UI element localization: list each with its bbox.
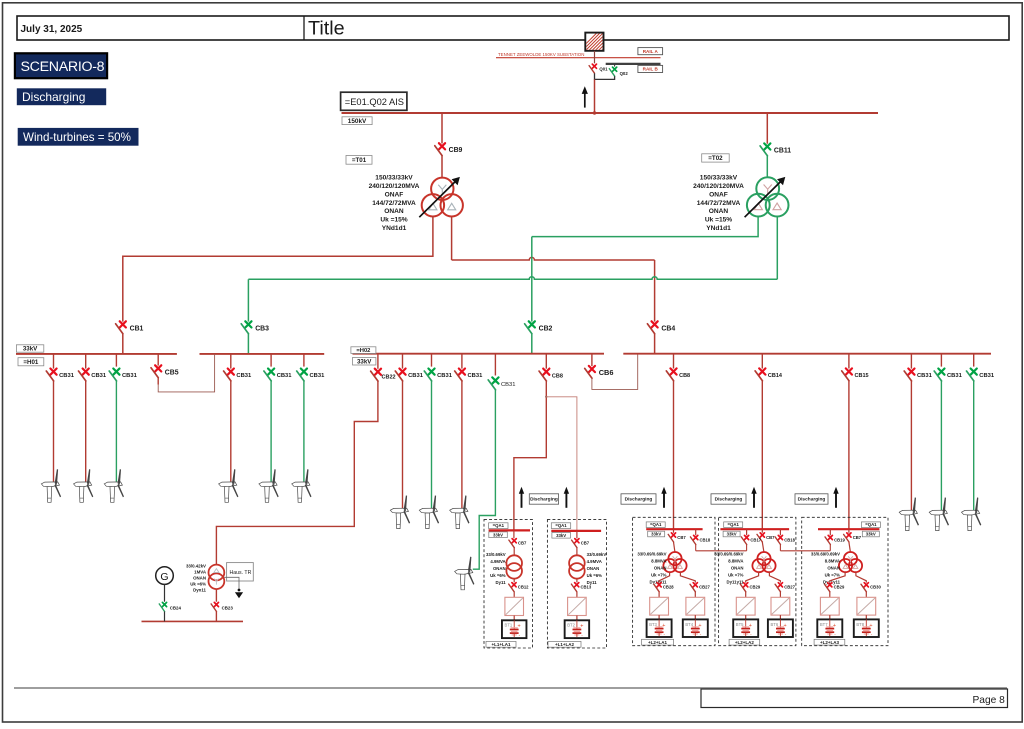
breaker CB18 (L2+LA1) <box>695 529 697 535</box>
wire bus tie CB6 <box>592 354 638 390</box>
container L2+LA3 <box>802 517 888 645</box>
wire CB8 branch to container L1LA2 <box>546 397 577 531</box>
label =E01.Q02 AIS <box>341 92 407 110</box>
svg-text:CB31: CB31 <box>408 373 424 379</box>
breaker CB7 (L2+LA1) <box>673 529 675 533</box>
wire PCS to battery (c1) <box>513 616 515 621</box>
breaker CB27 (L2+LA2) <box>775 583 795 592</box>
wire feeder drop F1 <box>53 381 55 482</box>
svg-text:CB31: CB31 <box>310 373 326 379</box>
svg-text:8.8MVA: 8.8MVA <box>825 558 840 563</box>
breaker CB22 <box>377 354 379 369</box>
svg-text:CB31: CB31 <box>979 373 995 379</box>
wire bus stub CB31 F13 <box>973 354 975 367</box>
svg-text:=QA1: =QA1 <box>493 523 505 528</box>
svg-text:33/0.69/0.69kV: 33/0.69/0.69kV <box>714 551 743 556</box>
svg-text:33/0.69/0.69kV: 33/0.69/0.69kV <box>637 551 666 556</box>
node CB8 branch <box>545 396 547 398</box>
svg-text:BT6: BT6 <box>771 622 779 627</box>
wire CB27 to PCS (L2+LA2) <box>779 592 781 598</box>
wire CB8 to container L1LA1 <box>514 381 546 530</box>
converter PCS BT7 <box>820 597 839 615</box>
breaker CB19 (L2+LA3) <box>829 529 831 535</box>
container L1+LA1 <box>484 520 533 648</box>
svg-text:150kV: 150kV <box>348 118 367 125</box>
svg-text:CB17: CB17 <box>750 537 761 542</box>
breaker CB31 F11 <box>904 369 932 381</box>
svg-text:CB14: CB14 <box>768 373 783 379</box>
converter PCS (c1) <box>505 597 524 615</box>
wire TR branch to CB29 (L2+LA3) <box>830 572 845 583</box>
breaker CB18 (L2+LA2) <box>779 529 781 535</box>
svg-text:BT1: BT1 <box>505 623 513 628</box>
wire CB13 to PCS (c2) <box>576 592 578 598</box>
wire CB23 to LV bus <box>215 612 217 622</box>
svg-text:CB7: CB7 <box>677 535 686 540</box>
svg-text:240/120/120MVA: 240/120/120MVA <box>369 183 420 190</box>
svg-text:CB7: CB7 <box>581 541 590 546</box>
svg-text:CB6: CB6 <box>599 368 614 377</box>
wire CB14 to container L2LA2 <box>761 381 763 529</box>
svg-text:=T01: =T01 <box>352 157 367 164</box>
svg-text:8.8MVA: 8.8MVA <box>728 558 743 563</box>
wire CB30 to PCS (L2+LA3) <box>865 592 867 598</box>
wire CB27 to PCS (L2+LA1) <box>694 592 696 598</box>
svg-text:33/0.69kV: 33/0.69kV <box>486 552 506 557</box>
breaker CB1 <box>116 321 144 333</box>
breaker CB7 (L2+LA3) <box>848 529 850 533</box>
label +L1+LA2 <box>548 641 581 647</box>
svg-text:CB7: CB7 <box>766 535 775 540</box>
wire PCS to battery BT5 <box>745 615 747 619</box>
wire T01 sec1 to CB1 <box>123 216 433 322</box>
wire bus stub CB31 F8 <box>431 354 433 367</box>
container L1+LA2 <box>547 520 606 648</box>
svg-text:BT7: BT7 <box>820 622 828 627</box>
wind turbine WT12 <box>929 497 949 530</box>
wire TR branch to CB27 (L2+LA1) <box>680 572 695 583</box>
wire bus to CB9 <box>441 113 443 144</box>
breaker CB8 (right bus) <box>673 354 675 369</box>
breaker CB7 (L2+LA2) <box>761 529 763 533</box>
arrow discharging A3 <box>661 487 666 508</box>
svg-text:Uk =6%: Uk =6% <box>190 582 206 587</box>
transformer L2+LA2 <box>752 552 775 572</box>
wire CB22 to aux transformer <box>216 381 378 565</box>
svg-text:CB31: CB31 <box>277 373 293 379</box>
wire feeder drop F4 <box>230 381 232 482</box>
wire feeder drop F11 <box>910 381 912 510</box>
svg-text:Dy11y11: Dy11y11 <box>727 579 745 584</box>
svg-text:CB18: CB18 <box>700 537 711 542</box>
transformer Haus TR <box>209 565 225 590</box>
svg-text:=QA1: =QA1 <box>865 522 877 527</box>
wire container link CB17 <box>746 545 748 551</box>
wire feeder drop F5 <box>270 381 272 482</box>
breaker Q02 <box>614 64 616 67</box>
wire feeder drop F10 <box>473 390 496 569</box>
breaker CB31 F9 <box>455 369 483 381</box>
svg-text:=QA1: =QA1 <box>555 523 567 528</box>
label +L1+LA1 <box>486 641 516 647</box>
svg-text:CB31: CB31 <box>947 373 963 379</box>
svg-text:=QA1: =QA1 <box>650 522 662 527</box>
wire bus stub CB31 F4 <box>230 354 232 369</box>
transformer T02 <box>745 177 789 217</box>
wind turbine WT3 <box>104 469 124 502</box>
arrow discharging A1 <box>519 487 524 508</box>
wire bus stub CB31 F9 <box>461 354 463 369</box>
bus H01 section 2 <box>200 353 325 355</box>
wire container link CB19 <box>829 545 831 551</box>
svg-text:July 31, 2025: July 31, 2025 <box>21 24 83 35</box>
discharging label <box>17 88 106 105</box>
svg-text:Discharging: Discharging <box>798 497 826 503</box>
svg-text:SCENARIO-8: SCENARIO-8 <box>21 59 105 75</box>
svg-text:33kV: 33kV <box>556 533 566 538</box>
wire feeder drop F2 <box>85 381 87 482</box>
svg-text:CB2: CB2 <box>539 325 553 332</box>
svg-text:8.8MVA: 8.8MVA <box>651 558 666 563</box>
wire grid to Q01 <box>594 51 596 64</box>
bus H01 section 1 <box>16 353 177 355</box>
svg-text:BT4: BT4 <box>685 622 693 627</box>
battery BT3 <box>647 619 672 637</box>
transformer L2+LA1 <box>663 552 686 572</box>
svg-text:4.9MVA: 4.9MVA <box>490 559 505 564</box>
svg-text:CB31: CB31 <box>122 373 138 379</box>
svg-text:CB29: CB29 <box>834 585 845 590</box>
svg-text:Q02: Q02 <box>620 71 629 76</box>
page number box <box>701 689 1008 708</box>
svg-text:CB8: CB8 <box>679 373 690 379</box>
wire CB29 to PCS (L2+LA2) <box>745 592 747 598</box>
wire G1 to CB24 <box>164 584 166 601</box>
svg-text:33kV: 33kV <box>357 358 372 365</box>
wire feeder drop F8 <box>431 381 433 508</box>
wire CB7 to TR (L2+LA2) <box>762 542 764 553</box>
wire feeder drop F13 <box>973 381 975 510</box>
svg-text:Discharging: Discharging <box>715 497 743 503</box>
wind turbine WT10 <box>455 557 475 590</box>
rail A busbar <box>496 57 661 59</box>
breaker CB31 F12 <box>934 369 962 381</box>
wire PCS to battery BT4 <box>694 615 696 619</box>
svg-text:RAIL B: RAIL B <box>643 67 659 72</box>
bottom rule <box>14 687 1007 689</box>
wire CB2 to bus H02 <box>531 334 533 354</box>
breaker CB31 F4 <box>224 369 252 381</box>
battery BT2 <box>565 620 590 638</box>
ground of Haus TR <box>224 577 243 598</box>
wire bus stub CB31 F6 <box>303 354 305 367</box>
svg-text:+L2+LA3: +L2+LA3 <box>820 640 840 645</box>
label 150kV <box>342 117 372 125</box>
breaker CB15 <box>848 354 850 369</box>
breaker CB17 (L2+LA2) <box>746 529 748 535</box>
L2+LA1 nameplate <box>637 551 667 584</box>
wind turbine WT13 <box>962 497 982 530</box>
svg-text:CB29: CB29 <box>750 585 761 590</box>
breaker CB2 <box>525 321 553 333</box>
breaker CB30 (L2+LA3) <box>861 583 881 592</box>
svg-text:+L1+LA2: +L1+LA2 <box>555 642 575 647</box>
wire feeder drop F7 <box>402 381 404 508</box>
svg-text:240/120/120MVA: 240/120/120MVA <box>693 183 744 190</box>
svg-text:CB31: CB31 <box>91 373 107 379</box>
wire CB7 to TR (L2+LA1) <box>674 542 676 553</box>
svg-text:33/0.69/0.69kV: 33/0.69/0.69kV <box>811 551 840 556</box>
c1 nameplate <box>486 552 506 585</box>
wire PCS to battery BT3 <box>658 615 660 619</box>
breaker CB8 (H02) <box>545 354 547 369</box>
svg-text:CB11: CB11 <box>774 147 791 154</box>
wire CB1 to bus H01 <box>122 334 124 354</box>
label 33kV (L2+LA1) <box>648 531 665 537</box>
label =QA1 (L2+LA3) <box>861 522 880 528</box>
svg-text:Haus. TR: Haus. TR <box>230 570 252 576</box>
wind turbine WT8 <box>419 495 439 528</box>
svg-text:33kV: 33kV <box>866 532 876 537</box>
label =H02 <box>351 347 376 354</box>
svg-text:150/33/33kV: 150/33/33kV <box>700 175 738 182</box>
wind turbine WT1 <box>41 469 61 502</box>
wire container link CB18 <box>695 545 697 551</box>
wire CB7 to TR (c2) <box>576 548 578 556</box>
wire TR branch to CB28 (L2+LA1) <box>659 572 670 583</box>
svg-text:CB31: CB31 <box>917 373 933 379</box>
T01 nameplate <box>369 175 420 232</box>
rail 33kV (L2+LA3) <box>818 528 879 530</box>
battery BT4 <box>683 619 708 637</box>
wind turbines label <box>18 128 139 146</box>
breaker CB29 (L2+LA2) <box>740 583 760 592</box>
svg-text:Uk =15%: Uk =15% <box>380 217 407 224</box>
label 33kV (c1) <box>489 532 508 538</box>
svg-text:RAIL A: RAIL A <box>643 49 659 54</box>
wire CB24 to LV bus <box>164 612 166 622</box>
wire CB9 to T01 <box>441 156 443 178</box>
label +L2+LA1 <box>642 639 674 645</box>
label =QA1 (L2+LA2) <box>724 522 743 528</box>
wire TR branch to CB30 (L2+LA3) <box>856 572 866 583</box>
container L2+LA1 <box>633 517 715 645</box>
svg-text:ONAN: ONAN <box>587 566 600 571</box>
svg-text:CB5: CB5 <box>165 369 179 376</box>
svg-text:CB9: CB9 <box>449 147 463 154</box>
converter PCS BT5 <box>736 597 755 615</box>
wire PCS to battery (c2) <box>576 616 578 621</box>
wind turbine WT7 <box>390 495 410 528</box>
breaker CB3 <box>241 321 269 333</box>
wire PCS to battery BT7 <box>829 615 831 619</box>
transformer c1 <box>506 555 522 578</box>
wire bus stub CB31 F2 <box>85 354 87 369</box>
svg-text:ONAN: ONAN <box>654 565 667 570</box>
wire PCS to battery BT8 <box>865 615 867 619</box>
svg-text:CB23: CB23 <box>222 606 234 611</box>
wire link L2LA1 to L2LA2 <box>696 550 747 552</box>
svg-text:Uk =15%: Uk =15% <box>705 217 732 224</box>
svg-text:ONAF: ONAF <box>709 191 728 198</box>
arrow discharging A2 <box>564 487 569 508</box>
rail B label <box>638 65 663 72</box>
generator G1 <box>156 567 174 585</box>
wire CB7 to TR (L2+LA3) <box>849 542 851 553</box>
breaker CB31 F7 <box>395 369 423 381</box>
container L2+LA2 <box>719 517 796 645</box>
converter PCS (c2) <box>568 597 587 615</box>
svg-text:Dyn11: Dyn11 <box>193 588 206 593</box>
svg-text:1MVA: 1MVA <box>194 570 207 575</box>
svg-text:Title: Title <box>308 17 345 39</box>
transformer T01 <box>419 177 463 217</box>
battery BT7 <box>817 619 842 637</box>
label discharging D4 <box>795 494 828 504</box>
wire container link CB18 <box>779 545 781 551</box>
breaker CB7 (c1) <box>513 530 515 538</box>
wire bus stub CB31 F5 <box>270 354 272 367</box>
wind turbine WT2 <box>74 469 94 502</box>
LV auxiliary bus <box>142 620 244 622</box>
svg-text:CB12: CB12 <box>518 585 529 590</box>
label =QA1 (c2) <box>551 523 570 529</box>
svg-text:Discharging: Discharging <box>22 90 85 104</box>
wire CB8 to container L2LA1 <box>673 381 675 530</box>
svg-text:CB24: CB24 <box>170 606 182 611</box>
svg-text:ONAN: ONAN <box>709 208 729 215</box>
breaker CB28 (L2+LA1) <box>654 583 674 592</box>
svg-text:CB31: CB31 <box>59 373 75 379</box>
svg-text:144/72/72MVA: 144/72/72MVA <box>372 200 416 207</box>
svg-text:ONAN: ONAN <box>493 566 506 571</box>
svg-text:=E01.Q02 AIS: =E01.Q02 AIS <box>345 97 404 107</box>
wire bus stub CB31 F3 <box>115 354 117 367</box>
breaker CB23 <box>211 602 233 611</box>
breaker CB11 <box>760 143 791 155</box>
c2 nameplate <box>587 552 607 585</box>
rail 33kV (c1) <box>489 529 530 531</box>
svg-text:Q01: Q01 <box>599 66 608 71</box>
breaker CB12 <box>513 579 515 583</box>
breaker CB31 F8 <box>424 369 452 381</box>
breaker CB29 (L2+LA3) <box>825 583 845 592</box>
battery BT6 <box>768 619 793 637</box>
node main bus junction <box>593 111 596 114</box>
converter PCS BT6 <box>771 597 790 615</box>
breaker CB31 F3 <box>109 369 137 381</box>
svg-text:CB7: CB7 <box>518 541 527 546</box>
svg-text:CB31: CB31 <box>236 373 252 379</box>
svg-text:Uk =7%: Uk =7% <box>651 572 667 577</box>
svg-text:CB3: CB3 <box>255 325 269 332</box>
converter PCS BT8 <box>857 597 876 615</box>
wire feeder drop F9 <box>461 381 463 508</box>
breaker CB13 <box>576 579 578 583</box>
wire CB7 to TR (c1) <box>513 548 515 556</box>
svg-text:Discharging: Discharging <box>530 497 558 503</box>
wire PCS to battery BT6 <box>779 615 781 619</box>
svg-text:CB31: CB31 <box>468 373 484 379</box>
rail 33kV (L2+LA1) <box>646 528 702 530</box>
label =QA1 (L2+LA1) <box>646 522 665 528</box>
label =T01 <box>346 156 372 165</box>
svg-text:CB15: CB15 <box>855 373 869 379</box>
wire Q01/Q02 junction <box>595 73 615 79</box>
label 33kV (L2+LA2) <box>723 531 740 537</box>
svg-text:+L2+LA1: +L2+LA1 <box>648 640 668 645</box>
label =T02 <box>702 154 730 162</box>
arrow discharging A5 <box>833 487 838 508</box>
label =QA1 (c1) <box>489 523 508 529</box>
svg-text:CB28: CB28 <box>663 585 674 590</box>
svg-text:Wind-turbines = 50%: Wind-turbines = 50% <box>23 131 131 144</box>
svg-text:CB7: CB7 <box>853 535 862 540</box>
svg-text:CB8: CB8 <box>552 373 563 379</box>
breaker CB31 F2 <box>79 369 107 381</box>
wire T01 sec2 to CB4 <box>452 217 655 322</box>
transformer c2 <box>569 555 585 578</box>
arrow discharging A4 <box>751 487 756 508</box>
svg-text:G: G <box>160 571 168 583</box>
wire CB4 to right bus <box>654 334 656 354</box>
wire CB11 to T02 <box>766 156 768 178</box>
svg-text:BT3: BT3 <box>649 622 657 627</box>
wind turbine WT9 <box>450 495 470 528</box>
svg-text:CB22: CB22 <box>382 375 396 381</box>
svg-text:CB27: CB27 <box>784 585 795 590</box>
svg-text:CB31: CB31 <box>437 373 453 379</box>
svg-text:Discharging: Discharging <box>625 497 653 503</box>
wire bus stub CB31 F11 <box>910 354 912 369</box>
svg-text:CB18: CB18 <box>784 537 795 542</box>
label Haus. TR <box>227 563 254 581</box>
wire Haus TR to CB23 <box>215 589 217 602</box>
converter PCS BT3 <box>650 597 669 615</box>
rail 33kV (c2) <box>551 530 601 532</box>
wire bus stub CB31 F1 <box>53 354 55 369</box>
svg-text:=QA1: =QA1 <box>728 522 740 527</box>
breaker CB9 <box>435 143 463 155</box>
svg-text:CB1: CB1 <box>130 325 144 332</box>
svg-text:33kV: 33kV <box>493 532 503 537</box>
transformer L2+LA3 <box>839 552 862 572</box>
breaker CB24 <box>159 602 181 611</box>
wire bus stub CB31 F7 <box>402 354 404 369</box>
svg-text:Uk =6%: Uk =6% <box>587 573 603 578</box>
arrow grid import <box>582 86 588 107</box>
wind turbine WT6 <box>292 469 312 502</box>
battery BT5 <box>733 619 758 637</box>
svg-text:+L1+LA1: +L1+LA1 <box>491 642 511 647</box>
bus H02 <box>353 353 605 355</box>
svg-text:33kV: 33kV <box>727 532 737 537</box>
svg-text:BT5: BT5 <box>736 622 744 627</box>
wire TR branch to CB29 (L2+LA2) <box>746 572 759 583</box>
svg-text:4.9MVA: 4.9MVA <box>587 559 602 564</box>
svg-text:+L2+LA2: +L2+LA2 <box>735 640 755 645</box>
breaker CB27 (L2+LA1) <box>690 583 710 592</box>
svg-text:144/72/72MVA: 144/72/72MVA <box>697 200 741 207</box>
breaker CB31 F13 <box>967 369 995 381</box>
svg-text:ONAF: ONAF <box>385 191 404 198</box>
svg-text:YNd1d1: YNd1d1 <box>382 225 407 232</box>
breaker CB6 (bus tie) <box>591 354 593 366</box>
svg-text:Page 8: Page 8 <box>973 695 1006 706</box>
L2+LA2 nameplate <box>714 551 744 584</box>
label 33kV (H01) <box>16 345 43 353</box>
svg-text:33kV: 33kV <box>23 346 38 353</box>
